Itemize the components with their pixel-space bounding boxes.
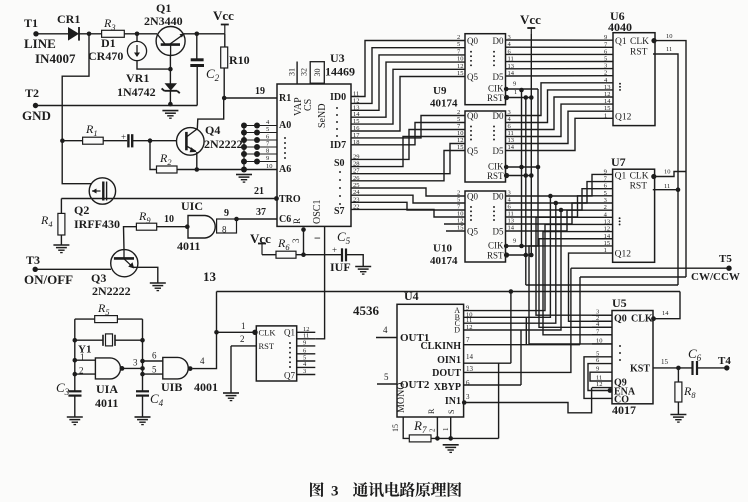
label 2N2222 for Q4 bbox=[204, 137, 243, 151]
svg-text:C5: C5 bbox=[337, 229, 351, 246]
label U6 pin 12 bbox=[604, 91, 611, 98]
wire to mid-40174 Q0 bbox=[351, 116, 465, 138]
counter U7 body bbox=[613, 169, 655, 262]
svg-text:T4: T4 bbox=[718, 355, 731, 367]
node C2 top junction bbox=[195, 32, 200, 37]
svg-text:13: 13 bbox=[466, 365, 474, 373]
label U6 pin 5 bbox=[604, 56, 607, 63]
label U9 RST bbox=[487, 93, 504, 103]
label U5 pin 4 bbox=[596, 321, 600, 328]
label Vcc mid bbox=[250, 231, 271, 246]
svg-text:11: 11 bbox=[303, 332, 309, 339]
label OSC1 bbox=[312, 200, 323, 224]
label U8 pin 12 bbox=[303, 326, 310, 333]
label T1 bbox=[24, 16, 38, 30]
zener diode VR1 1N4742 bbox=[162, 83, 180, 93]
label U10 CIK bbox=[488, 241, 504, 251]
label VR1 bbox=[126, 71, 149, 85]
label U8 pin2 bbox=[240, 334, 245, 344]
label U10 Q5 bbox=[467, 227, 478, 237]
node C riser top bbox=[554, 201, 559, 206]
label U10 dpin 13 bbox=[508, 218, 515, 225]
label U7 pin 15 bbox=[604, 240, 611, 247]
svg-text:9: 9 bbox=[266, 155, 269, 162]
label U8 pin 11 bbox=[303, 332, 309, 339]
label U8 pin 5 bbox=[303, 355, 306, 362]
wire U6 RST chain bbox=[653, 54, 678, 285]
svg-text:CIK: CIK bbox=[488, 241, 504, 251]
svg-text:9: 9 bbox=[596, 366, 599, 373]
svg-text:−: − bbox=[314, 231, 321, 245]
label U9 qpin 12 bbox=[457, 63, 464, 70]
label U6 name bbox=[610, 9, 625, 23]
wire CR1 to R3 bbox=[79, 33, 102, 35]
svg-text:4536: 4536 bbox=[353, 303, 380, 318]
label U6 Q1 bbox=[615, 37, 627, 47]
label U9 qpin 15 bbox=[457, 70, 464, 77]
svg-text:R7: R7 bbox=[413, 418, 427, 435]
svg-text:CW/CCW: CW/CCW bbox=[691, 271, 740, 283]
wire U7 low pin A bbox=[545, 223, 613, 225]
label U10 dpin 14 bbox=[508, 225, 515, 232]
wire U6 pin to mid D0 bbox=[506, 83, 614, 116]
wire R2 riser bbox=[150, 141, 157, 170]
label pin 19 bbox=[255, 86, 265, 97]
label U6 pin 15 bbox=[604, 105, 611, 112]
wire Q1 collector to Vcc bbox=[184, 33, 225, 35]
terminal T5 bbox=[726, 266, 731, 271]
svg-text:2: 2 bbox=[240, 334, 245, 344]
svg-text:U5: U5 bbox=[612, 296, 627, 310]
crystal Y1 bbox=[103, 334, 115, 346]
svg-text:5: 5 bbox=[457, 116, 460, 123]
svg-text:U3: U3 bbox=[330, 51, 345, 65]
node R1 branch junction bbox=[60, 138, 65, 143]
label S pin 24 bbox=[353, 189, 360, 196]
wire chain vertical A bbox=[521, 90, 523, 246]
wire D-XBYP link bbox=[520, 330, 522, 385]
wire U9 D2 to U6 bbox=[506, 53, 614, 55]
svg-text:CO: CO bbox=[614, 395, 629, 406]
counter U6 body bbox=[613, 33, 655, 126]
pin U6 CLK dot bbox=[651, 38, 656, 43]
svg-text:+: + bbox=[332, 245, 337, 255]
label B bbox=[455, 313, 460, 322]
label A bbox=[454, 306, 460, 315]
label pin 10 bbox=[164, 214, 174, 225]
label U10mid Q0 bbox=[467, 111, 478, 121]
wire C3 ground lead bbox=[74, 396, 76, 417]
wire U6 pin to mid D5 bbox=[506, 118, 614, 150]
label U7 pin 12 bbox=[604, 226, 611, 233]
svg-text:21: 21 bbox=[254, 186, 264, 197]
wire pinR stub bbox=[436, 417, 438, 438]
label U6 pin 13 bbox=[604, 84, 611, 91]
node Y1 right bbox=[140, 338, 145, 343]
svg-text:MONO: MONO bbox=[396, 382, 407, 413]
ground Q3 bbox=[150, 283, 166, 291]
terminal T4 bbox=[724, 365, 729, 370]
label R5 bbox=[97, 301, 110, 317]
label pin 5 bbox=[266, 126, 269, 133]
label pin 7 bbox=[266, 141, 270, 148]
label U5 pin 7 bbox=[596, 328, 600, 335]
wire C4 ground lead bbox=[142, 396, 144, 417]
label R10 bbox=[229, 53, 250, 67]
label S pin 28 bbox=[353, 161, 360, 168]
label U10 qpin 7 bbox=[457, 204, 461, 211]
wire R1 lead bbox=[62, 140, 82, 142]
wire U8 stub 3 bbox=[297, 374, 316, 376]
wire U10 D0 to U7 bbox=[506, 174, 613, 196]
wire U10 Q4 stub bbox=[444, 223, 465, 225]
label U10 40174 bbox=[430, 255, 458, 267]
label R1 bbox=[85, 122, 98, 138]
wire TRO long line bbox=[61, 198, 276, 200]
svg-text:T3: T3 bbox=[26, 253, 40, 267]
label U6 pin 3 bbox=[604, 63, 607, 70]
dots U5 bbox=[619, 345, 621, 361]
label U10mid D5 bbox=[493, 146, 504, 156]
wire T5 line bbox=[571, 267, 729, 269]
svg-text:T2: T2 bbox=[25, 86, 39, 100]
label U8 pin1 bbox=[241, 321, 246, 331]
svg-text:15: 15 bbox=[457, 144, 464, 151]
label U9 rst 1 bbox=[514, 89, 517, 96]
svg-text:+: + bbox=[121, 132, 126, 142]
label pin4 out1 bbox=[383, 325, 388, 335]
svg-text:CLK: CLK bbox=[259, 327, 277, 337]
pin U10 RST dot bbox=[504, 252, 509, 257]
svg-text:R: R bbox=[292, 218, 302, 224]
label UIC bbox=[181, 199, 203, 213]
label U5 Q9 bbox=[614, 378, 627, 389]
svg-text:12: 12 bbox=[457, 63, 464, 70]
diode CR1 bbox=[68, 27, 79, 41]
label Q1 bbox=[156, 1, 171, 15]
resistor R7 bbox=[409, 435, 431, 442]
wire ID4 to U9 Q4 bbox=[351, 69, 465, 124]
dots U6 bbox=[619, 83, 621, 91]
pin mid CIK dot bbox=[504, 165, 509, 170]
svg-text:GND: GND bbox=[22, 108, 51, 123]
wire to mid-40174 Q3 bbox=[351, 137, 465, 167]
svg-text:RST: RST bbox=[630, 182, 648, 192]
wire S5 to U10 Q1 bbox=[351, 195, 465, 203]
wire U6 CLK bbox=[653, 41, 686, 277]
label U9 40174 bbox=[430, 97, 458, 109]
wire CIK bus bbox=[506, 89, 539, 246]
svg-text:10: 10 bbox=[596, 337, 603, 344]
label U9 dpin 14 bbox=[508, 70, 515, 77]
resistor R3 bbox=[102, 30, 125, 37]
wire U10 Q5 stub bbox=[446, 230, 465, 232]
node UIB out bbox=[188, 366, 193, 371]
capacitor C2 bbox=[190, 60, 204, 66]
svg-text:ID7: ID7 bbox=[330, 140, 346, 151]
svg-text:10: 10 bbox=[266, 163, 273, 170]
svg-text:5: 5 bbox=[457, 41, 460, 48]
label U6 pin 2 bbox=[604, 70, 607, 77]
label U6 Q12 bbox=[615, 113, 632, 123]
svg-text:40174: 40174 bbox=[430, 97, 458, 109]
wire Q3 emitter bbox=[134, 267, 158, 283]
node UIA in1 bbox=[73, 358, 78, 363]
wire U5 stub 6 bbox=[592, 363, 612, 365]
label U5 Q0 bbox=[614, 314, 627, 325]
label 14469 bbox=[325, 65, 355, 79]
label pin 37 bbox=[256, 207, 266, 218]
label IN4007 bbox=[35, 51, 76, 66]
label Vcc top-left bbox=[213, 8, 234, 23]
svg-text:2N2222: 2N2222 bbox=[204, 137, 243, 151]
label S pin 26 bbox=[353, 175, 360, 182]
svg-text:1: 1 bbox=[514, 89, 517, 96]
svg-text:CR470: CR470 bbox=[88, 49, 123, 63]
label U8 pin 6 bbox=[303, 347, 307, 354]
label pinS bbox=[447, 410, 456, 414]
label U9 Q0 bbox=[467, 36, 478, 46]
svg-text:R: R bbox=[427, 408, 436, 414]
label R2 bbox=[159, 151, 172, 167]
label CW/CCW bbox=[691, 271, 740, 283]
wire OIN1 gnd branch bbox=[498, 363, 500, 438]
wire U10 D5 to U7 bbox=[506, 210, 613, 231]
wire KST lead bbox=[653, 367, 692, 369]
wire IN1 row bbox=[464, 388, 592, 413]
node U10 RST vcc bbox=[529, 253, 534, 258]
label U9 Q5 bbox=[467, 72, 478, 82]
label U10mid dpin 6 bbox=[508, 123, 512, 130]
wire U8 CLK lead bbox=[217, 331, 257, 333]
label U8 pin 3 bbox=[303, 368, 306, 375]
label U5 CO bbox=[614, 395, 629, 406]
label pin15 kst bbox=[661, 358, 669, 366]
wire U7 CLK bbox=[653, 172, 686, 177]
wire U10 D3 to U7 bbox=[506, 196, 613, 217]
svg-text:A0: A0 bbox=[279, 120, 291, 131]
svg-text:D0: D0 bbox=[493, 192, 504, 202]
wire U10 D1 to U7 bbox=[506, 182, 613, 203]
svg-text:5: 5 bbox=[457, 197, 460, 204]
svg-text:Vcc: Vcc bbox=[520, 12, 541, 27]
label U7 pin 5 bbox=[604, 190, 607, 197]
label U10mid qpin 2 bbox=[457, 109, 460, 116]
svg-text:RST: RST bbox=[630, 47, 648, 57]
pin IN1 dot bbox=[462, 400, 467, 405]
ground U8 RST bbox=[223, 393, 239, 401]
label U8 Q1 bbox=[284, 327, 295, 337]
label S0 bbox=[334, 158, 345, 169]
svg-text:4: 4 bbox=[200, 356, 205, 366]
label U10mid qpin 10 bbox=[457, 130, 464, 137]
wire CLK master line bbox=[217, 291, 681, 293]
label U4 name bbox=[404, 289, 419, 303]
ground below VR1 bbox=[162, 111, 178, 119]
label T5 bbox=[719, 253, 732, 265]
wire U8 RST lead bbox=[231, 345, 256, 347]
gate UIB 4001 nor bbox=[163, 357, 188, 379]
resistor R6 bbox=[276, 251, 296, 258]
node chainA top bbox=[519, 88, 524, 93]
svg-text:Q2: Q2 bbox=[74, 203, 89, 217]
label U5 CLK bbox=[631, 314, 653, 325]
label T2 bbox=[25, 86, 39, 100]
label U10 RST bbox=[487, 251, 504, 261]
wire U10 RST bbox=[506, 254, 532, 256]
node B riser top bbox=[548, 194, 553, 199]
label U9 dpin 6 bbox=[508, 48, 512, 55]
ground R8 bbox=[670, 415, 686, 423]
transistor Q4 2N2222 bbox=[177, 128, 205, 156]
svg-text:2N2222: 2N2222 bbox=[92, 284, 131, 298]
wire UIB in5 bbox=[143, 373, 163, 375]
label U6 CLK bbox=[630, 37, 649, 47]
label U6 pin 4 bbox=[604, 77, 608, 84]
svg-text:IN1: IN1 bbox=[445, 396, 461, 407]
label U10mid qpin 7 bbox=[457, 123, 461, 130]
svg-text:37: 37 bbox=[256, 207, 266, 218]
label U10 cik 9 bbox=[513, 238, 516, 245]
label U10mid dpin 4 bbox=[508, 116, 512, 123]
transistor Q1 2N3440 bbox=[156, 27, 185, 56]
node chainA mid bbox=[519, 165, 524, 170]
wire C2 stem bottom bbox=[196, 66, 198, 106]
node osc node3 a bbox=[140, 359, 145, 364]
svg-text:14: 14 bbox=[662, 310, 669, 317]
power Vcc rail symbol bbox=[527, 28, 535, 34]
svg-text:6: 6 bbox=[466, 379, 470, 387]
label pin3 in1 bbox=[466, 393, 470, 401]
dots U9 D bbox=[493, 51, 495, 67]
label pinR bbox=[427, 408, 436, 414]
wire U8 stub 5 bbox=[297, 360, 316, 362]
wire U8 stub 9 bbox=[297, 345, 316, 347]
wire VR1 to GND line bbox=[169, 91, 171, 104]
wire U7 r217 to U5 pin3 bbox=[536, 217, 613, 315]
wire ID0 to U9 Q0 bbox=[351, 41, 465, 97]
label pin15 bbox=[391, 424, 400, 432]
wire U5 loop b bbox=[588, 364, 612, 391]
power Vcc top-left bbox=[221, 25, 229, 34]
svg-text:SeND: SeND bbox=[317, 104, 328, 128]
svg-text:CLK: CLK bbox=[630, 37, 649, 47]
wire U9 D0 to U6 bbox=[506, 39, 614, 41]
svg-text:3: 3 bbox=[133, 358, 138, 368]
wire U7 pin14 to U5 pin4 bbox=[539, 239, 613, 328]
wire osc left rail bbox=[74, 319, 76, 391]
label U10mid qpin 5 bbox=[457, 116, 460, 123]
svg-text:R8: R8 bbox=[683, 384, 696, 400]
label C5 bbox=[337, 229, 351, 246]
node emitter-D1 junction bbox=[168, 67, 173, 72]
wire UIB in6 bbox=[143, 360, 163, 362]
wire osc right rail bbox=[142, 319, 144, 391]
wire to mid-40174 Q2 bbox=[351, 130, 465, 160]
node osc node3 b bbox=[140, 366, 145, 371]
wire U6 pin to mid D2 bbox=[506, 97, 614, 130]
label U6 pin 7 bbox=[604, 41, 608, 48]
wire U5 stub 7 bbox=[592, 334, 612, 336]
wire U10 D2 to U7 bbox=[506, 189, 613, 210]
timer U4 4536 body bbox=[397, 304, 464, 417]
label ON/OFF bbox=[24, 272, 73, 287]
label LINE bbox=[24, 36, 56, 51]
wire R4 to ground bbox=[60, 235, 62, 245]
wire Vcc rail bbox=[530, 34, 532, 255]
wire mid CIK bbox=[506, 166, 539, 168]
label U6 rst 11 bbox=[666, 46, 672, 53]
label U7 name bbox=[611, 155, 626, 169]
svg-text:CIK: CIK bbox=[488, 162, 504, 172]
label pin 3 uia bbox=[133, 358, 138, 368]
svg-text:9: 9 bbox=[303, 339, 306, 346]
resistor R2 bbox=[157, 166, 178, 173]
transistor Q3 2N2222 bbox=[111, 250, 138, 277]
label 4011 osc bbox=[95, 396, 118, 410]
label U4 pin 12 bbox=[466, 324, 473, 331]
wire U4 B riser bbox=[464, 196, 551, 317]
wire U5 loop a bbox=[584, 357, 612, 399]
wire Q3 collector to R9 bbox=[124, 227, 137, 250]
label U4 pin 10 bbox=[466, 311, 473, 318]
label U6 pin 9 bbox=[604, 34, 607, 41]
label R3 bbox=[103, 16, 116, 32]
label U5 KST bbox=[630, 364, 650, 375]
wire T2 GND line bbox=[36, 105, 198, 107]
label U8 RST bbox=[259, 341, 275, 351]
wire Vcc to R10 bbox=[224, 34, 226, 47]
svg-text:T5: T5 bbox=[719, 253, 732, 265]
pin U10 CIK dot bbox=[504, 244, 509, 249]
label pin5 out2 bbox=[384, 372, 389, 382]
svg-text:UIB: UIB bbox=[161, 380, 182, 394]
wire UIC feedback box pin8 bbox=[217, 219, 237, 233]
svg-text:Q1: Q1 bbox=[284, 327, 295, 337]
label U10 D5 bbox=[493, 227, 504, 237]
label MONO bbox=[396, 382, 407, 413]
label R7 bbox=[413, 418, 427, 435]
svg-text:19: 19 bbox=[255, 86, 265, 97]
dots U7 bbox=[619, 217, 621, 225]
svg-text:C2: C2 bbox=[206, 66, 220, 83]
label minus bbox=[314, 231, 321, 245]
label pin2 r7 bbox=[429, 428, 437, 432]
flip-flop U10mid body bbox=[465, 111, 506, 182]
svg-text:4040: 4040 bbox=[608, 20, 632, 34]
label U10 qpin 2 bbox=[457, 190, 460, 197]
svg-text:8: 8 bbox=[222, 225, 227, 235]
label A0 bbox=[279, 120, 291, 131]
svg-text:U10: U10 bbox=[433, 243, 452, 255]
label ID pin 14 bbox=[353, 111, 360, 118]
svg-text:Q3: Q3 bbox=[91, 271, 106, 285]
node ENA dot bbox=[608, 388, 613, 393]
svg-text:7: 7 bbox=[466, 336, 470, 344]
wire U8 stub 11 bbox=[297, 338, 316, 340]
svg-text:12: 12 bbox=[457, 137, 464, 144]
dots U10mid D bbox=[493, 126, 495, 141]
wire U8 stub 12 bbox=[297, 331, 316, 333]
svg-text:R3: R3 bbox=[103, 16, 116, 32]
label U10 dpin 11 bbox=[508, 211, 514, 218]
wire S4 to U10 Q0 bbox=[351, 188, 465, 196]
label U10mid dpin 14 bbox=[508, 144, 515, 151]
label ID0 bbox=[330, 92, 346, 103]
wire U3 R pin bbox=[303, 230, 305, 255]
label U9 dpin 11 bbox=[508, 56, 514, 63]
svg-text:D5: D5 bbox=[493, 146, 504, 156]
